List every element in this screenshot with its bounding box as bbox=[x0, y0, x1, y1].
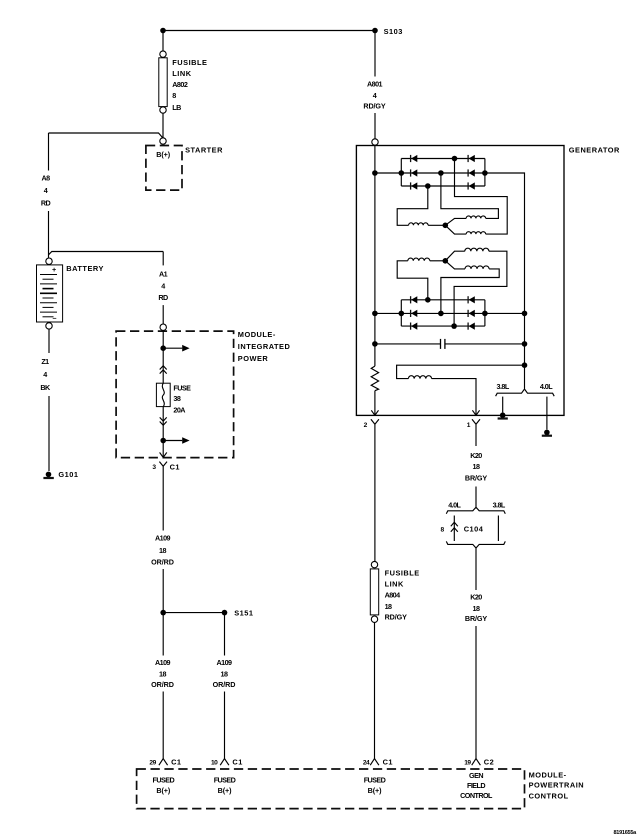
diode D11 bbox=[468, 310, 475, 317]
svg-text:FUSIBLE: FUSIBLE bbox=[172, 58, 207, 67]
svg-text:19: 19 bbox=[464, 759, 471, 766]
svg-text:BK: BK bbox=[40, 383, 51, 392]
svg-text:OR/RD: OR/RD bbox=[151, 680, 174, 689]
wire A801 4 RD/GY bbox=[363, 31, 386, 139]
svg-text:LINK: LINK bbox=[172, 69, 191, 78]
svg-text:INTEGRATED: INTEGRATED bbox=[238, 342, 291, 351]
svg-text:FUSE: FUSE bbox=[173, 384, 191, 393]
wire A109 18 OR/RD lower left bbox=[151, 613, 174, 759]
node bus/capacitor junction bbox=[372, 341, 378, 347]
svg-text:Z1: Z1 bbox=[41, 357, 49, 366]
svg-text:RD/GY: RD/GY bbox=[385, 612, 408, 621]
svg-text:4: 4 bbox=[373, 91, 377, 100]
diode D3 bbox=[411, 182, 418, 189]
svg-text:3.8L: 3.8L bbox=[497, 382, 510, 391]
lower rectifier bracket right bbox=[484, 300, 486, 326]
ground 3.8L bbox=[498, 397, 508, 419]
svg-text:STARTER: STARTER bbox=[185, 145, 223, 154]
svg-text:18: 18 bbox=[159, 670, 166, 679]
wire top rectifier row 1 bbox=[401, 158, 485, 160]
wire lower rectifier row 3 bbox=[401, 325, 485, 327]
node S103 left junction bbox=[160, 28, 166, 34]
svg-text:–: – bbox=[53, 313, 57, 322]
pin label fused B(+) 29 bbox=[152, 775, 174, 795]
splice chevrons below fuse bbox=[160, 417, 167, 425]
connector C1 pin 24 bbox=[363, 757, 393, 766]
diode D7 bbox=[411, 296, 418, 303]
wire A109 18 OR/RD upper bbox=[151, 466, 174, 612]
wire into fuse 38 bbox=[162, 330, 164, 383]
svg-text:RD: RD bbox=[158, 293, 168, 302]
svg-text:29: 29 bbox=[149, 759, 156, 766]
wire generator pin 2 to fusible link A804 bbox=[374, 424, 376, 561]
wire A8 4 RD bbox=[41, 133, 51, 258]
generator pin 2 bbox=[364, 419, 379, 429]
svg-text:A109: A109 bbox=[155, 534, 171, 543]
resistor (generator internal) bbox=[371, 366, 378, 415]
svg-text:38: 38 bbox=[173, 394, 180, 403]
svg-text:18: 18 bbox=[473, 604, 480, 613]
diode D8 bbox=[411, 310, 418, 317]
connector C1 pin 3 bbox=[152, 462, 180, 472]
svg-text:POWER: POWER bbox=[238, 354, 269, 363]
svg-text:RD/GY: RD/GY bbox=[363, 102, 386, 111]
node stator1 wye center bbox=[443, 223, 449, 229]
pin label gen field control bbox=[460, 771, 493, 800]
node S103 bbox=[372, 27, 403, 36]
wire from S103 to fusible link A802 bbox=[162, 31, 164, 52]
svg-text:18: 18 bbox=[473, 462, 480, 471]
svg-text:A109: A109 bbox=[217, 658, 233, 667]
node bus/lower rectifier junction bbox=[372, 311, 378, 317]
wire stator2 phase A bbox=[397, 258, 445, 300]
fusible link A802 bbox=[159, 51, 208, 113]
diode D10 bbox=[468, 296, 475, 303]
svg-text:20A: 20A bbox=[173, 406, 185, 415]
svg-text:C1: C1 bbox=[170, 462, 180, 471]
svg-text:+: + bbox=[52, 265, 56, 274]
svg-text:FUSIBLE: FUSIBLE bbox=[385, 568, 420, 577]
diode D9 bbox=[411, 323, 418, 330]
svg-text:CONTROL: CONTROL bbox=[529, 791, 569, 800]
battery bbox=[37, 258, 104, 329]
svg-text:FUSED: FUSED bbox=[214, 775, 236, 784]
svg-text:C2: C2 bbox=[484, 757, 494, 766]
svg-text:FUSED: FUSED bbox=[364, 775, 386, 784]
node starter B(+) terminal bbox=[160, 138, 166, 144]
connector C104 engine split bbox=[441, 500, 506, 548]
svg-text:C1: C1 bbox=[171, 757, 181, 766]
node S151 bbox=[160, 608, 253, 617]
svg-text:FUSED: FUSED bbox=[152, 775, 174, 784]
wire generator left bus bbox=[374, 146, 376, 367]
arrow at module exit bbox=[160, 452, 167, 457]
wire K20 18 BR/GY upper bbox=[465, 424, 488, 507]
svg-text:10: 10 bbox=[211, 759, 218, 766]
svg-text:B(+): B(+) bbox=[156, 150, 170, 159]
wire battery positive to A1 bbox=[49, 252, 164, 255]
wire fuse to module output bbox=[162, 407, 164, 458]
svg-text:BATTERY: BATTERY bbox=[66, 264, 104, 273]
svg-text:C104: C104 bbox=[464, 525, 484, 534]
wire A804 to connector C1 pin 24 bbox=[374, 622, 376, 758]
wire stator1 phase B bbox=[441, 173, 499, 225]
fusible link A804 bbox=[370, 561, 419, 622]
pin 2 exit arrow bbox=[371, 410, 378, 415]
lower rectifier bracket left bbox=[400, 300, 402, 326]
node bus/top rectifier junction bbox=[372, 170, 378, 176]
wire lower rectifier output to right bus bbox=[485, 311, 527, 317]
generator pin 1 bbox=[467, 419, 480, 429]
node stator2 wye center bbox=[443, 258, 449, 264]
svg-text:FIELD: FIELD bbox=[467, 781, 485, 790]
wire stator1 phase A bbox=[397, 186, 445, 225]
node top rectifier junctions bbox=[399, 156, 488, 189]
wire top bus S103 bbox=[163, 30, 375, 32]
pin label fused B(+) 10 bbox=[214, 775, 236, 795]
node junction below fuse with feed arrow bbox=[160, 437, 189, 444]
svg-text:K20: K20 bbox=[470, 451, 482, 460]
svg-text:4.0L: 4.0L bbox=[540, 382, 553, 391]
svg-text:24: 24 bbox=[363, 759, 370, 766]
svg-text:OR/RD: OR/RD bbox=[151, 557, 174, 566]
svg-text:S151: S151 bbox=[234, 608, 253, 617]
svg-text:C1: C1 bbox=[232, 757, 242, 766]
capacitor (generator internal) bbox=[375, 339, 527, 349]
wire A1 4 RD bbox=[158, 252, 168, 325]
field winding (generator internal) bbox=[397, 362, 528, 414]
wire top rectifier row 3 bbox=[401, 185, 485, 187]
diode D2 bbox=[411, 169, 418, 176]
svg-text:K20: K20 bbox=[470, 593, 482, 602]
wire lower rectifier row 1 bbox=[401, 299, 485, 301]
svg-text:S103: S103 bbox=[384, 27, 403, 36]
diode D12 bbox=[468, 323, 475, 330]
svg-text:GENERATOR: GENERATOR bbox=[569, 146, 620, 155]
wire battery feed horizontal bbox=[49, 133, 163, 138]
module-integrated power (dashed box) bbox=[116, 330, 290, 458]
node connector ring at generator B+ bbox=[372, 139, 378, 145]
diode D5 bbox=[468, 169, 475, 176]
svg-text:RD: RD bbox=[41, 199, 51, 208]
connector C1 pin 10 bbox=[211, 757, 243, 766]
diode D1 bbox=[411, 155, 418, 162]
ground G101 bbox=[43, 470, 78, 479]
wire fusible link to starter B(+) bbox=[162, 113, 164, 138]
svg-text:B(+): B(+) bbox=[368, 786, 382, 795]
starter (dashed box) bbox=[146, 145, 223, 190]
svg-text:A1: A1 bbox=[159, 270, 168, 279]
node connector ring at module-integrated power input bbox=[160, 324, 166, 330]
diode D6 bbox=[468, 182, 475, 189]
wire stator1 phase C bbox=[445, 159, 507, 235]
svg-text:A109: A109 bbox=[155, 658, 171, 667]
generator case ground split brace 3.8L/4.0L bbox=[496, 382, 555, 396]
svg-text:4.0L: 4.0L bbox=[448, 500, 461, 509]
diode D4 bbox=[468, 155, 475, 162]
wire lower rectifier row 2 bbox=[375, 312, 485, 314]
drawing id bbox=[614, 830, 638, 836]
wire A109 18 OR/RD lower right bbox=[213, 613, 236, 759]
pin label fused B(+) 24 bbox=[364, 775, 386, 795]
node junction above fuse with feed arrow bbox=[160, 345, 189, 352]
connector C2 pin 19 bbox=[464, 757, 494, 766]
svg-text:G101: G101 bbox=[58, 470, 78, 479]
wire top rectifier output to right bus bbox=[485, 173, 525, 389]
svg-text:4: 4 bbox=[161, 281, 165, 290]
svg-text:POWERTRAIN: POWERTRAIN bbox=[529, 781, 585, 790]
generator (box) bbox=[356, 146, 620, 416]
wire top rectifier row 2 bbox=[375, 172, 485, 174]
pin 1 exit arrow bbox=[472, 410, 479, 415]
svg-text:LINK: LINK bbox=[385, 579, 404, 588]
svg-text:A802: A802 bbox=[172, 80, 188, 89]
connector C1 pin 29 bbox=[149, 757, 181, 766]
svg-text:18: 18 bbox=[385, 602, 392, 611]
svg-text:4: 4 bbox=[44, 186, 48, 195]
splice chevrons above fuse bbox=[160, 366, 167, 374]
top rectifier bracket left bbox=[400, 159, 402, 187]
svg-text:C1: C1 bbox=[383, 757, 393, 766]
wire stator2 phase C bbox=[441, 261, 499, 314]
svg-text:B(+): B(+) bbox=[156, 786, 170, 795]
node lower rectifier junctions bbox=[399, 297, 488, 329]
fuse 38 20A bbox=[156, 383, 191, 414]
svg-text:A801: A801 bbox=[367, 80, 383, 89]
ground 4.0L bbox=[542, 397, 552, 436]
svg-text:8: 8 bbox=[172, 91, 176, 100]
svg-text:4: 4 bbox=[43, 370, 47, 379]
top rectifier bracket right bbox=[484, 159, 486, 187]
svg-text:8191655a: 8191655a bbox=[614, 830, 638, 836]
svg-text:A8: A8 bbox=[41, 174, 50, 183]
svg-text:CONTROL: CONTROL bbox=[460, 791, 493, 800]
wire stator2 phase B bbox=[445, 248, 507, 326]
module-powertrain control (dashed box) bbox=[137, 769, 585, 809]
svg-text:MODULE-: MODULE- bbox=[238, 330, 276, 339]
svg-text:18: 18 bbox=[159, 546, 166, 555]
svg-text:MODULE-: MODULE- bbox=[529, 771, 567, 780]
svg-text:BR/GY: BR/GY bbox=[465, 474, 488, 483]
wire K20 18 BR/GY lower bbox=[465, 548, 488, 759]
wire Z1 4 BK bbox=[40, 329, 51, 471]
svg-text:B(+): B(+) bbox=[218, 786, 232, 795]
svg-text:OR/RD: OR/RD bbox=[213, 680, 236, 689]
svg-text:A804: A804 bbox=[385, 590, 401, 599]
svg-text:BR/GY: BR/GY bbox=[465, 614, 488, 623]
svg-text:LB: LB bbox=[172, 103, 181, 112]
svg-text:GEN: GEN bbox=[469, 771, 483, 780]
svg-text:18: 18 bbox=[221, 670, 228, 679]
svg-text:3.8L: 3.8L bbox=[493, 500, 506, 509]
